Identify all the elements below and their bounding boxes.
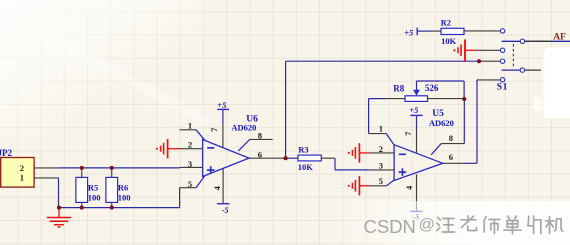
svg-text:1: 1 [188,120,192,130]
svg-text:R2: R2 [441,18,451,28]
svg-text:100: 100 [118,192,131,202]
svg-text:S1: S1 [497,83,508,93]
svg-text:5: 5 [379,176,383,186]
svg-text:+5: +5 [409,105,419,115]
svg-text:3: 3 [379,160,383,170]
svg-text:8: 8 [258,131,262,141]
svg-text:R8: R8 [393,84,404,94]
svg-text:AD620: AD620 [429,118,454,128]
svg-text:AF: AF [553,33,566,43]
svg-text:JP2: JP2 [0,148,12,158]
svg-text:@: @ [419,217,435,234]
svg-text:100: 100 [88,192,101,202]
svg-text:5: 5 [188,179,192,189]
svg-text:-5: -5 [222,206,229,215]
svg-text:AD620: AD620 [231,122,256,132]
svg-text:2: 2 [188,139,192,149]
svg-text:10K: 10K [298,162,314,172]
svg-text:R5: R5 [88,183,98,193]
svg-text:1: 1 [379,124,383,134]
svg-text:8: 8 [449,133,453,143]
svg-text:R6: R6 [118,183,128,193]
svg-text:+5: +5 [404,27,414,37]
svg-text:10K: 10K [441,36,457,46]
svg-text:CSDN: CSDN [364,216,416,237]
svg-text:6: 6 [258,149,262,159]
svg-text:526: 526 [425,83,439,93]
svg-text:6: 6 [449,152,453,162]
svg-text:+5: +5 [217,100,227,110]
svg-text:2: 2 [379,144,383,154]
svg-text:R3: R3 [298,145,308,155]
svg-text:3: 3 [188,159,192,169]
svg-text:1: 1 [20,173,24,183]
